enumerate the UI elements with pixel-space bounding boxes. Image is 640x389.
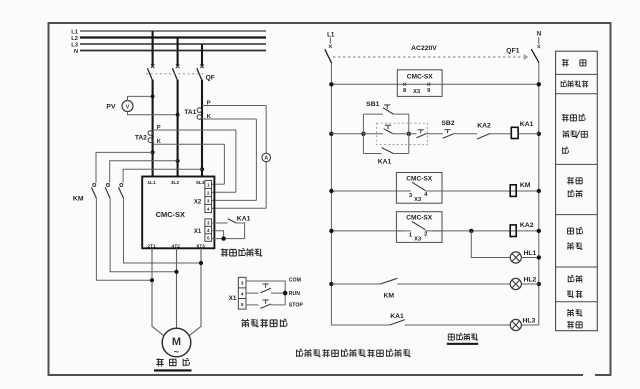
svg-text:L3: L3 [71,42,79,48]
svg-text:KA2: KA2 [477,123,491,130]
svg-text:SB1: SB1 [366,101,379,108]
svg-text:KM: KM [520,182,531,189]
svg-text:HL2: HL2 [524,276,537,283]
svg-text:RUN: RUN [289,291,300,297]
svg-text:3: 3 [241,281,244,286]
svg-text:COM: COM [289,278,301,284]
svg-text:SB2: SB2 [441,120,454,127]
svg-text:QF1: QF1 [506,47,519,54]
svg-text:L2: L2 [71,36,78,42]
svg-text:V: V [126,104,130,110]
svg-text:PV: PV [106,104,116,111]
svg-text:X3: X3 [414,197,422,203]
svg-text:~: ~ [174,347,179,357]
svg-text:L1: L1 [327,31,335,38]
svg-text:1L1: 1L1 [147,180,156,186]
svg-text:N: N [74,49,78,55]
svg-text:A: A [264,156,268,162]
svg-text:P: P [157,125,161,131]
svg-text:AC220V: AC220V [411,45,437,52]
svg-text:KA1: KA1 [378,159,392,166]
svg-text:KM: KM [384,293,395,300]
svg-text:3L2: 3L2 [171,180,180,186]
svg-text:KA1: KA1 [390,313,404,320]
svg-text:KA2: KA2 [520,222,534,229]
svg-text:X2: X2 [194,200,202,206]
svg-text:5: 5 [241,302,244,307]
svg-text:5L3: 5L3 [196,180,205,186]
svg-text:TA2: TA2 [135,134,147,141]
svg-text:TA1: TA1 [184,109,196,116]
svg-text:QF: QF [206,74,215,81]
svg-text:KM: KM [73,195,84,202]
svg-text:CMC-SX: CMC-SX [156,210,185,219]
svg-text:4: 4 [241,291,244,296]
svg-text:CMC-SX: CMC-SX [407,73,434,80]
svg-text:X3: X3 [413,89,421,95]
svg-text:CMC-SX: CMC-SX [406,215,433,222]
svg-text:KA1: KA1 [520,121,534,128]
svg-text:KA1: KA1 [237,216,251,223]
svg-text:X3: X3 [414,237,422,243]
svg-text:X1: X1 [194,229,202,235]
svg-text:2: 2 [424,232,427,238]
svg-text:CMC-SX: CMC-SX [406,175,433,182]
svg-text:X1: X1 [229,295,237,302]
svg-text:N: N [537,30,542,37]
svg-text:P: P [207,100,211,106]
svg-text:STOP: STOP [289,303,304,309]
svg-text:HL1: HL1 [524,250,537,257]
svg-text:HL3: HL3 [523,318,536,325]
svg-text:L1: L1 [71,29,79,35]
